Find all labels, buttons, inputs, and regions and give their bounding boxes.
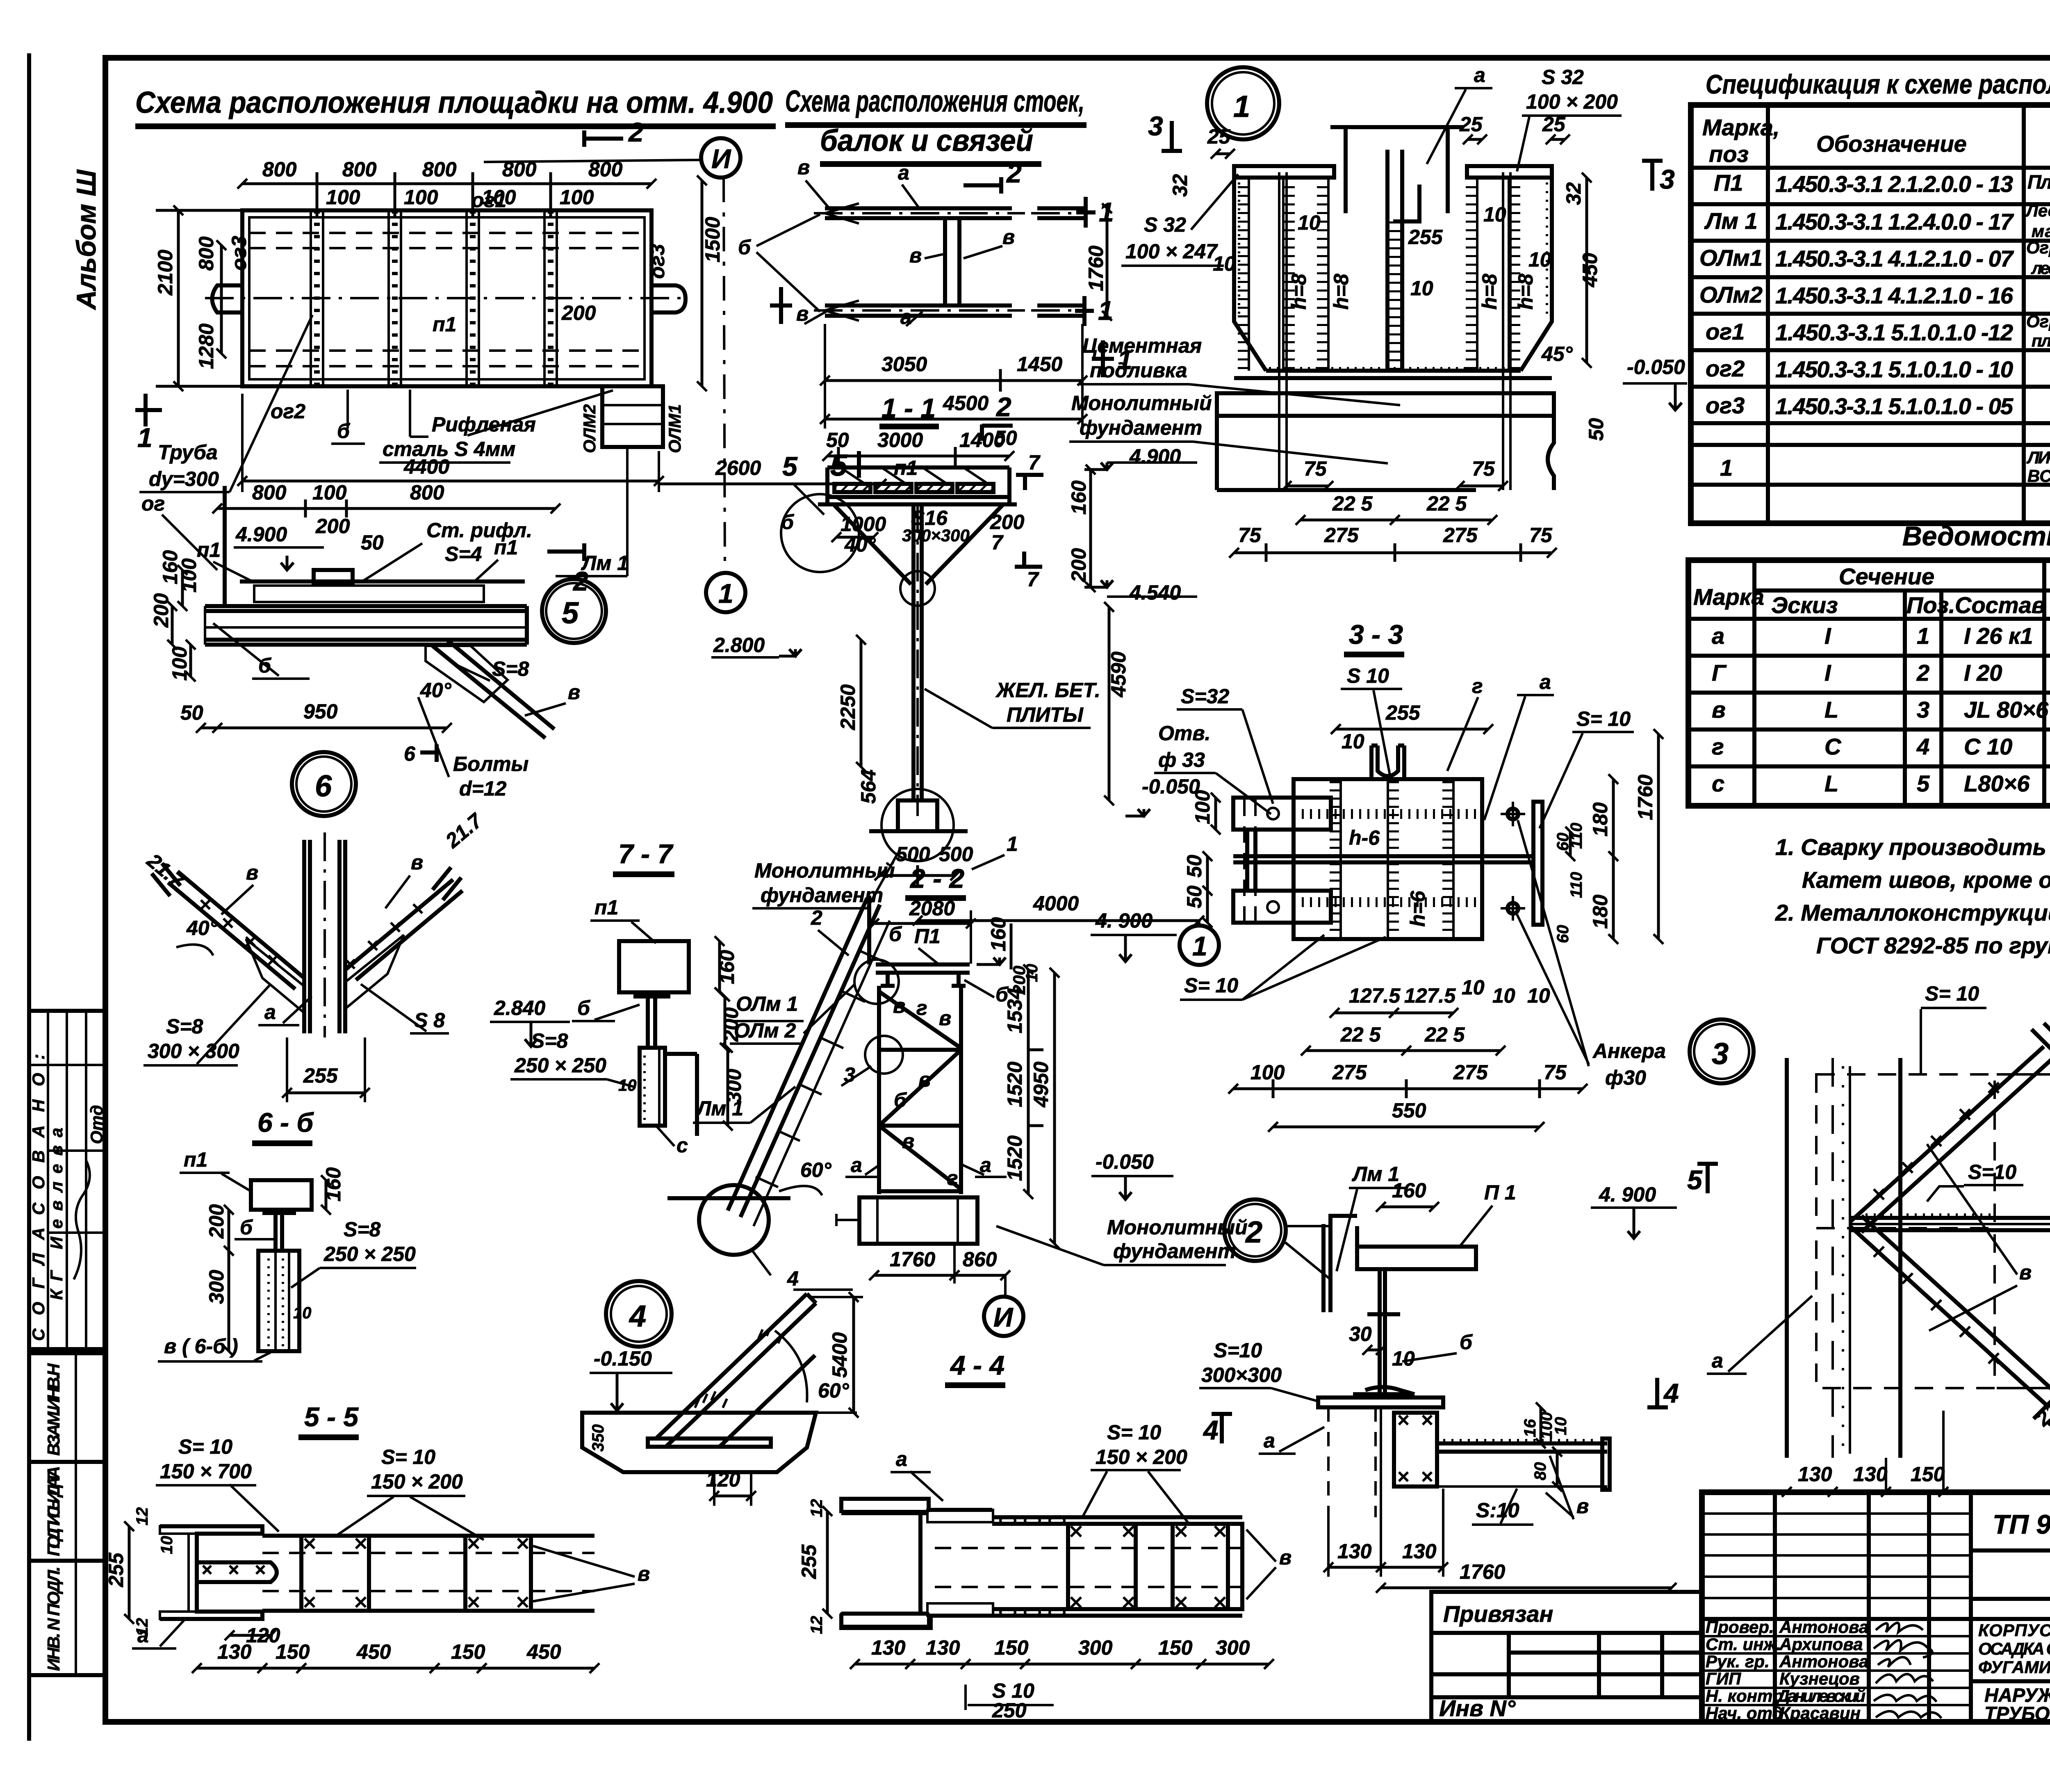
member: left channel with hatch xyxy=(160,1526,262,1619)
svg-text:200: 200 xyxy=(720,1007,743,1042)
plan rectangle xyxy=(242,210,651,386)
svg-text:4.900: 4.900 xyxy=(235,523,287,546)
svg-text:6: 6 xyxy=(404,742,416,765)
svg-text:а: а xyxy=(1474,64,1485,87)
svg-text:130: 130 xyxy=(1853,1463,1888,1486)
svg-text:КОРПУС ОБЕЗВОЖИВАНИЯ: КОРПУС ОБЕЗВОЖИВАНИЯ xyxy=(1978,1621,2050,1640)
leaders from circle2 xyxy=(1285,1243,1330,1279)
svg-text:ог2: ог2 xyxy=(271,400,305,423)
svg-text:1 - 1: 1 - 1 xyxy=(881,393,936,423)
svg-text:2250: 2250 xyxy=(836,684,859,730)
svg-text:d=12: d=12 xyxy=(459,777,507,800)
vedomost table xyxy=(1688,555,2050,806)
svg-text:275: 275 xyxy=(1443,524,1478,547)
svg-text:130: 130 xyxy=(926,1636,960,1659)
svg-text:255: 255 xyxy=(1385,701,1421,724)
svg-text:ОЛм 1: ОЛм 1 xyxy=(736,992,798,1015)
svg-text:5 - 5: 5 - 5 xyxy=(304,1402,359,1432)
svg-text:32: 32 xyxy=(1562,182,1585,205)
svg-text:100: 100 xyxy=(168,646,191,681)
svg-text:10: 10 xyxy=(1528,248,1551,271)
svg-text:фундамент: фундамент xyxy=(1080,416,1202,439)
svg-text:а: а xyxy=(1540,670,1551,693)
svg-text:4: 4 xyxy=(1663,1378,1679,1408)
svg-text:1.450.3-3.1 4.1.2.1.0 - 07: 1.450.3-3.1 4.1.2.1.0 - 07 xyxy=(1775,246,2014,271)
svg-text:Н. контр.: Н. контр. xyxy=(1706,1686,1788,1705)
circle detail left xyxy=(781,494,859,572)
small T supports xyxy=(881,973,966,986)
svg-text:127.5: 127.5 xyxy=(1404,984,1456,1007)
svg-text:250 × 250: 250 × 250 xyxy=(514,1054,606,1077)
svg-text:Марка,: Марка, xyxy=(1702,114,1779,140)
svg-text:1760: 1760 xyxy=(890,1248,935,1271)
svg-text:Катет швов, кроме оговоре: Катет швов, кроме оговоренных, равен 6мм… xyxy=(1802,867,2050,893)
svg-text:50: 50 xyxy=(361,531,384,554)
svg-text:Сечение: Сечение xyxy=(1839,563,1934,589)
column xyxy=(911,504,916,800)
svg-text:ТП 902-5-47.87: ТП 902-5-47.87 xyxy=(1993,1509,2050,1539)
svg-text:10: 10 xyxy=(1023,964,1041,983)
svg-text:Нач. отд: Нач. отд xyxy=(1706,1703,1783,1723)
svg-text:45°: 45° xyxy=(1541,342,1573,365)
svg-text:L: L xyxy=(1824,697,1838,723)
svg-text:110: 110 xyxy=(1567,872,1585,898)
upper brace xyxy=(1850,1046,2050,1232)
horizontal member xyxy=(1850,1216,2050,1220)
base line thru ladder foot xyxy=(667,1196,790,1200)
svg-text:h=8: h=8 xyxy=(1514,274,1537,310)
spec table heading xyxy=(1706,54,2050,109)
svg-text:подливка: подливка xyxy=(1090,359,1187,382)
svg-text:275: 275 xyxy=(1453,1061,1488,1084)
svg-text:б: б xyxy=(781,511,795,533)
svg-text:2: 2 xyxy=(811,906,822,929)
svg-text:1: 1 xyxy=(1233,89,1250,123)
svg-text:в: в xyxy=(246,861,258,884)
svg-text:L80×6: L80×6 xyxy=(1964,771,2030,796)
svg-text:в: в xyxy=(902,1130,914,1153)
svg-text:10: 10 xyxy=(1410,277,1433,300)
svg-text:25: 25 xyxy=(1207,125,1231,148)
oval slots xyxy=(1000,1516,1064,1616)
svg-text:Лм 1: Лм 1 xyxy=(1704,208,1758,234)
svg-text:Данилевский: Данилевский xyxy=(1776,1686,1865,1705)
svg-text:75: 75 xyxy=(1238,524,1262,547)
svg-text:200: 200 xyxy=(990,511,1025,533)
svg-text:h=8: h=8 xyxy=(1330,274,1353,310)
svg-text:800: 800 xyxy=(410,481,444,504)
svg-text:2: 2 xyxy=(1006,158,1022,188)
svg-text:150: 150 xyxy=(451,1640,485,1663)
svg-text:Эскиз: Эскиз xyxy=(1771,592,1838,618)
edge angles xyxy=(825,467,829,504)
svg-text:100: 100 xyxy=(326,186,360,209)
dashed gusset rects xyxy=(1816,1074,1995,1228)
svg-text:И: И xyxy=(711,144,731,174)
svg-text:а: а xyxy=(1712,623,1724,649)
svg-text:10: 10 xyxy=(618,1076,637,1094)
svg-text:S 32: S 32 xyxy=(1144,213,1186,236)
svg-text:300: 300 xyxy=(1216,1636,1250,1659)
svg-text:h=6: h=6 xyxy=(1406,890,1429,927)
svg-text:Болты: Болты xyxy=(453,752,528,775)
svg-text:22 5: 22 5 xyxy=(1332,492,1373,515)
svg-text:75: 75 xyxy=(1472,457,1495,480)
svg-text:ГОСТ 8292-85 по грунтовке: ГОСТ 8292-85 по грунтовке ГФ-021. xyxy=(1816,932,2050,958)
svg-text:б: б xyxy=(738,236,752,259)
svg-text:Красавин: Красавин xyxy=(1779,1703,1861,1723)
svg-text:б: б xyxy=(889,923,902,946)
2.800 level left xyxy=(779,649,802,656)
svg-text:поз: поз xyxy=(1709,141,1749,167)
heading: scheme of posts xyxy=(785,84,1086,164)
svg-text:а: а xyxy=(851,1154,862,1176)
svg-text:450: 450 xyxy=(356,1640,391,1663)
svg-text:50: 50 xyxy=(1585,418,1608,441)
dim row 800s xyxy=(242,182,651,185)
svg-text:ВЗАМ.ИНВ.Н: ВЗАМ.ИНВ.Н xyxy=(44,1363,63,1456)
svg-text:П1: П1 xyxy=(1714,170,1743,196)
svg-text:в: в xyxy=(638,1562,650,1585)
svg-text:JL 80×6: JL 80×6 xyxy=(1964,697,2049,723)
left flange plates xyxy=(1233,798,1331,830)
svg-text:3: 3 xyxy=(1917,697,1929,723)
lower beam xyxy=(825,303,1012,308)
svg-text:16: 16 xyxy=(1521,1419,1539,1437)
beam P1 xyxy=(1357,1247,1476,1269)
svg-text:200: 200 xyxy=(205,1204,228,1239)
svg-text:а: а xyxy=(264,1001,276,1024)
svg-text:Привязан: Привязан xyxy=(1443,1601,1553,1627)
lower brace xyxy=(1850,1216,2050,1404)
foundation xyxy=(1217,416,1554,490)
svg-text:Труба: Труба xyxy=(158,441,218,464)
svg-text:г: г xyxy=(1712,734,1724,759)
svg-text:10: 10 xyxy=(1492,984,1515,1007)
svg-text:7 - 7: 7 - 7 xyxy=(618,839,674,869)
svg-text:с: с xyxy=(676,1134,688,1157)
svg-text:в: в xyxy=(411,851,423,874)
svg-text:-0.050: -0.050 xyxy=(1096,1150,1154,1173)
svg-text:ЖЕЛ. БЕТ.: ЖЕЛ. БЕТ. xyxy=(995,679,1100,702)
svg-text:2080: 2080 xyxy=(909,897,955,920)
foot plate xyxy=(648,1439,771,1447)
svg-text:Площадка пмхрв- 21.8: Площадка пмхрв- 21.8 xyxy=(2027,171,2050,193)
svg-text:950: 950 xyxy=(303,700,338,723)
svg-text:50: 50 xyxy=(1183,885,1206,908)
svg-text:1760: 1760 xyxy=(1634,775,1657,820)
svg-text:100: 100 xyxy=(312,481,347,504)
svg-text:б: б xyxy=(894,1089,907,1112)
svg-text:5: 5 xyxy=(830,448,848,482)
svg-text:800: 800 xyxy=(342,158,377,181)
svg-text:10: 10 xyxy=(1527,984,1550,1007)
svg-text:255: 255 xyxy=(303,1064,338,1087)
svg-text:40°: 40° xyxy=(420,679,452,702)
svg-text:300 × 300: 300 × 300 xyxy=(148,1040,239,1062)
svg-text:300: 300 xyxy=(205,1270,228,1304)
svg-text:5: 5 xyxy=(1917,771,1930,796)
ladder foot circle xyxy=(699,1185,769,1255)
svg-text:10: 10 xyxy=(1213,252,1236,275)
cement layer xyxy=(1217,393,1554,416)
svg-text:С: С xyxy=(1824,734,1842,759)
svg-text:п1: п1 xyxy=(184,1148,207,1171)
svg-text:1: 1 xyxy=(137,422,153,453)
svg-text:800: 800 xyxy=(252,481,287,504)
svg-text:10: 10 xyxy=(1462,976,1485,999)
svg-text:П 1: П 1 xyxy=(1484,1181,1516,1204)
svg-text:h=8: h=8 xyxy=(1287,274,1310,310)
tank walls with serrations xyxy=(1243,178,1515,371)
specification table xyxy=(1691,105,2050,523)
svg-text:Цементная: Цементная xyxy=(1082,334,1202,357)
svg-text:10: 10 xyxy=(1342,730,1364,753)
svg-text:3: 3 xyxy=(1148,111,1163,141)
svg-text:ог3: ог3 xyxy=(1706,392,1745,418)
svg-text:Рифленая: Рифленая xyxy=(432,413,536,436)
svg-text:ИНВ. N ПОДЛ.: ИНВ. N ПОДЛ. xyxy=(44,1566,63,1671)
heading: scheme of platform xyxy=(135,85,776,126)
svg-text:S= 10: S= 10 xyxy=(1184,974,1238,997)
svg-text:3050: 3050 xyxy=(881,353,927,376)
circle 5 xyxy=(542,579,606,643)
svg-text:I 26 к1: I 26 к1 xyxy=(1964,623,2033,649)
svg-text:12: 12 xyxy=(808,1616,826,1635)
svg-text:1500: 1500 xyxy=(701,217,724,262)
svg-text:150: 150 xyxy=(1911,1463,1945,1486)
svg-text:10: 10 xyxy=(1392,1347,1415,1370)
svg-text:2600: 2600 xyxy=(715,456,761,479)
section mark 2 top xyxy=(584,137,623,141)
svg-text:2100: 2100 xyxy=(154,250,177,296)
svg-text:С 10: С 10 xyxy=(1964,734,2012,759)
vertical post left xyxy=(223,486,227,607)
svg-text:S=32: S=32 xyxy=(1181,685,1229,708)
svg-text:200: 200 xyxy=(150,593,173,628)
svg-text:32: 32 xyxy=(1168,174,1191,197)
outer tank walls xyxy=(1234,178,1266,371)
svg-text:ОСАДКА СТОЧНЫХ ВОД С 5 ЦЕНТРИ: ОСАДКА СТОЧНЫХ ВОД С 5 ЦЕНТРИ- xyxy=(1978,1639,2050,1658)
svg-text:3000: 3000 xyxy=(877,429,923,451)
signature rows xyxy=(1702,1635,1971,1637)
node circle И xyxy=(701,138,740,178)
platform deck: plank sections xyxy=(827,467,1009,497)
pipe stubs xyxy=(212,285,243,312)
svg-text:п1: п1 xyxy=(494,536,518,559)
svg-text:127.5: 127.5 xyxy=(1349,984,1401,1007)
svg-text:255: 255 xyxy=(105,1552,128,1587)
svg-text:1520: 1520 xyxy=(1003,1062,1026,1107)
svg-text:ПЛИТЫ: ПЛИТЫ xyxy=(1007,703,1084,726)
inclined stringer end xyxy=(656,1294,816,1448)
svg-text:Монолитный: Монолитный xyxy=(754,859,895,882)
anchors xyxy=(1279,172,1510,490)
svg-text:в: в xyxy=(918,1068,931,1091)
svg-text:800: 800 xyxy=(588,158,623,181)
top center shaft xyxy=(1344,126,1348,213)
svg-text:Отв.: Отв. xyxy=(1158,722,1210,745)
svg-text:фундамент: фундамент xyxy=(1113,1240,1236,1263)
svg-text:ТРУБОПРОВОД.: ТРУБОПРОВОД. xyxy=(1984,1703,2050,1724)
svg-text:150 × 200: 150 × 200 xyxy=(371,1470,463,1493)
svg-text:2. Металлоконструкции окра: 2. Металлоконструкции окрасить масляной … xyxy=(1775,900,2050,926)
svg-text:S=4: S=4 xyxy=(445,543,482,565)
svg-text:1.450.3-3.1 5.1.0.1.0 - 10: 1.450.3-3.1 5.1.0.1.0 - 10 xyxy=(1775,356,2013,382)
svg-text:4.540: 4.540 xyxy=(1129,581,1181,604)
svg-text:1.450.3-3.1 1.2.4.0.0 - 17: 1.450.3-3.1 1.2.4.0.0 - 17 xyxy=(1775,209,2014,235)
svg-text:а: а xyxy=(898,161,909,184)
svg-text:4: 4 xyxy=(1203,1415,1219,1445)
svg-text:1.450.3-3.1 5.1.0.1.0 -12: 1.450.3-3.1 5.1.0.1.0 -12 xyxy=(1775,319,2013,345)
svg-text:25: 25 xyxy=(1459,113,1483,136)
svg-text:1760: 1760 xyxy=(1084,246,1107,291)
anchors right xyxy=(1508,809,1518,819)
svg-text:лестниц ОГл МЛХЭБ60-10.54: лестниц ОГл МЛХЭБ60-10.54 xyxy=(2031,258,2050,278)
dims xyxy=(825,379,1082,382)
sheet outer margin line xyxy=(27,53,31,1741)
svg-text:б: б xyxy=(577,996,591,1019)
svg-text:п1: п1 xyxy=(197,538,221,561)
svg-text:4: 4 xyxy=(787,1267,799,1290)
ladder stringers xyxy=(728,898,880,1217)
svg-text:ОЛМ2: ОЛМ2 xyxy=(580,404,599,453)
svg-text:300: 300 xyxy=(722,1069,745,1103)
svg-text:300×300: 300×300 xyxy=(1201,1363,1282,1386)
svg-text:1.450.3-3.1 4.1.2.1.0 - 16: 1.450.3-3.1 4.1.2.1.0 - 16 xyxy=(1775,283,2014,308)
svg-text:Схема расположения стоек,: Схема расположения стоек, xyxy=(785,84,1084,118)
svg-text:100: 100 xyxy=(178,558,200,593)
svg-text:100: 100 xyxy=(1191,790,1214,824)
svg-text:Монолитный: Монолитный xyxy=(1071,392,1212,415)
svg-text:130: 130 xyxy=(871,1636,906,1659)
svg-text:550: 550 xyxy=(1392,1099,1426,1122)
svg-text:800: 800 xyxy=(262,158,297,181)
svg-text:30: 30 xyxy=(1349,1322,1372,1345)
svg-text:Обозначение: Обозначение xyxy=(1816,131,1967,157)
svg-text:-0.050: -0.050 xyxy=(1627,356,1685,378)
svg-text:ГИП: ГИП xyxy=(1706,1669,1741,1688)
svg-text:в: в xyxy=(1279,1546,1291,1569)
svg-text:2: 2 xyxy=(628,117,644,147)
4590 dim xyxy=(1108,607,1111,800)
x marks on braces xyxy=(201,900,278,964)
svg-text:ПОДПИСЬ И ДАТА: ПОДПИСЬ И ДАТА xyxy=(44,1466,63,1556)
svg-text:1.450.3-3.1 5.1.0.1.0 - 05: 1.450.3-3.1 5.1.0.1.0 - 05 xyxy=(1775,393,2014,419)
svg-text:22 5: 22 5 xyxy=(1424,1023,1465,1046)
svg-text:S=8: S=8 xyxy=(344,1218,381,1241)
svg-text:I 20: I 20 xyxy=(1964,660,2002,686)
section 4 flags xyxy=(1220,1413,1224,1443)
svg-text:L: L xyxy=(1824,771,1838,796)
svg-text:130: 130 xyxy=(1402,1540,1437,1563)
svg-text:200: 200 xyxy=(1067,548,1090,583)
svg-text:2 - 2: 2 - 2 xyxy=(909,863,964,894)
svg-text:1: 1 xyxy=(1917,623,1929,649)
svg-text:150: 150 xyxy=(1158,1636,1193,1659)
V braces under platform xyxy=(834,505,911,584)
level marks right xyxy=(1084,463,1113,470)
svg-text:250 × 250: 250 × 250 xyxy=(323,1243,416,1265)
section 7 flags xyxy=(1023,474,1027,490)
5 section flags xyxy=(1706,1163,1710,1193)
svg-text:800: 800 xyxy=(502,158,537,181)
svg-text:800: 800 xyxy=(422,158,457,181)
svg-text:ВСт3кп2 ГОСТ 8568-77: ВСт3кп2 ГОСТ 8568-77 xyxy=(2027,466,2050,486)
svg-text:а: а xyxy=(896,1448,907,1471)
svg-text:4950: 4950 xyxy=(1030,1062,1052,1108)
svg-text:с: с xyxy=(1712,771,1724,796)
left dims xyxy=(177,210,180,386)
svg-text:ог1: ог1 xyxy=(1706,319,1745,344)
svg-text:300: 300 xyxy=(1078,1636,1113,1659)
svg-text:500: 500 xyxy=(939,843,973,866)
svg-text:ог: ог xyxy=(141,492,165,515)
baseplate xyxy=(1318,1398,1443,1407)
notes xyxy=(1775,834,2050,958)
svg-text:S=10: S=10 xyxy=(1214,1339,1262,1362)
right dim 1500 xyxy=(701,180,704,386)
svg-text:60°: 60° xyxy=(818,1379,850,1402)
big plate assembly xyxy=(1294,779,1482,939)
svg-text:150 × 700: 150 × 700 xyxy=(160,1460,252,1483)
svg-text:275: 275 xyxy=(1324,524,1359,547)
svg-text:25: 25 xyxy=(1542,113,1566,136)
column xyxy=(1785,1058,1789,1458)
svg-text:S=8: S=8 xyxy=(166,1015,203,1038)
svg-text:I: I xyxy=(1824,623,1831,649)
svg-text:1520: 1520 xyxy=(1003,1135,1026,1181)
svg-text:564: 564 xyxy=(857,770,880,804)
svg-text:в: в xyxy=(797,156,810,179)
svg-text:в: в xyxy=(939,1007,951,1030)
central web beam xyxy=(1233,854,1535,858)
detail circle 1 xyxy=(1207,67,1279,139)
svg-text:860: 860 xyxy=(963,1248,997,1271)
svg-text:60: 60 xyxy=(1554,925,1572,944)
svg-text:-0.150: -0.150 xyxy=(594,1347,652,1370)
svg-text:4. 900: 4. 900 xyxy=(1599,1183,1656,1206)
svg-text:1760: 1760 xyxy=(1460,1560,1505,1583)
svg-text:Провер.: Провер. xyxy=(1706,1617,1774,1637)
beam body xyxy=(240,579,525,584)
diagonal brace xyxy=(433,640,554,738)
svg-text:120: 120 xyxy=(706,1468,740,1491)
svg-text:75: 75 xyxy=(1304,457,1327,480)
svg-text:в: в xyxy=(909,244,922,267)
svg-text:ОЛм 2: ОЛм 2 xyxy=(734,1019,796,1042)
svg-text:10: 10 xyxy=(158,1536,176,1555)
flag 2 xyxy=(980,424,984,441)
svg-text:Ограждение: Ограждение xyxy=(2026,238,2050,257)
concrete body xyxy=(582,1413,816,1472)
svg-text:12: 12 xyxy=(808,1499,826,1518)
svg-text:5: 5 xyxy=(782,451,798,481)
svg-text:б: б xyxy=(240,1216,253,1239)
svg-text:ог3: ог3 xyxy=(646,244,669,279)
svg-text:4000: 4000 xyxy=(1033,892,1079,915)
upper beam xyxy=(825,206,1012,210)
svg-text:1.450.3-3.1 2.1.2.0.0 - 13: 1.450.3-3.1 2.1.2.0.0 - 13 xyxy=(1775,171,2013,197)
svg-text:160: 160 xyxy=(1392,1179,1426,1202)
svg-text:1000: 1000 xyxy=(840,513,886,536)
svg-text:4.900: 4.900 xyxy=(1129,445,1181,468)
svg-text:500: 500 xyxy=(896,843,930,866)
svg-text:150 × 200: 150 × 200 xyxy=(1096,1445,1187,1468)
svg-text:S= 10: S= 10 xyxy=(1925,982,1979,1005)
svg-text:Антонова: Антонова xyxy=(1779,1652,1868,1671)
flag 2 xyxy=(547,549,584,554)
